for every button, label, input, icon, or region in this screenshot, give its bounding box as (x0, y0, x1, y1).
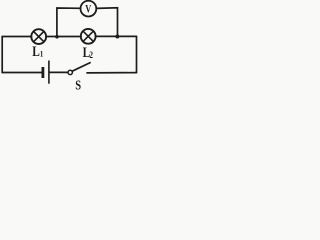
svg-text:1: 1 (40, 49, 44, 59)
label L1 (32, 43, 43, 60)
switch S lever (open) (72, 62, 91, 71)
battery cell negative plate (short thick) (42, 67, 45, 78)
wire switch to battery positive plate (50, 71, 68, 73)
wire lamp L1 to lamp L2 (46, 36, 81, 38)
wire voltmeter right lead down to node B (96, 8, 117, 37)
svg-text:S: S (75, 77, 81, 93)
wire top-left corner to lamp L1 (2, 36, 31, 38)
svg-text:L: L (32, 43, 40, 60)
lamp L1 (31, 29, 46, 44)
node A junction dot (left voltmeter tap) (55, 35, 59, 39)
svg-text:2: 2 (89, 50, 93, 60)
battery cell positive plate (long thin) (48, 61, 50, 84)
wire voltmeter left lead down to node A (57, 8, 81, 37)
lamp L2 (81, 29, 96, 44)
svg-text:V: V (85, 3, 92, 16)
wire right vertical side (136, 36, 138, 72)
wire left vertical side (1, 37, 3, 73)
switch S pivot (68, 70, 72, 74)
node B junction dot (right voltmeter tap) (115, 35, 119, 39)
voltmeter V (in parallel with lamp L2) (81, 1, 97, 17)
wire battery negative plate to bottom-left corner (2, 72, 42, 74)
wire bottom-right corner to switch (87, 72, 137, 74)
label L2 (83, 43, 93, 60)
wire lamp L2 to top-right corner (96, 35, 137, 37)
